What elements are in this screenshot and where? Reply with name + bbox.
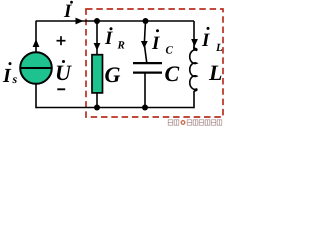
svg-text:I: I: [104, 28, 113, 49]
svg-text:I: I: [151, 33, 160, 54]
node top-C: [143, 18, 149, 24]
wire bottom: [36, 107, 194, 109]
current source Is bar: [20, 67, 52, 69]
wire G branch upper: [96, 21, 98, 54]
wire top: [36, 20, 194, 22]
conductance G: [92, 55, 103, 93]
svg-text:I: I: [201, 30, 210, 51]
svg-text:C: C: [166, 45, 174, 57]
node bottom-C: [142, 105, 148, 111]
arrow IR (down): [94, 43, 101, 51]
svg-text:I: I: [63, 1, 72, 22]
wire G branch lower: [96, 93, 98, 108]
inductor L coil: [190, 47, 197, 91]
arrow Is source current (up): [33, 39, 40, 47]
arrow IL (down): [191, 39, 198, 47]
svg-text:U: U: [55, 60, 72, 85]
current source Is circle: [20, 52, 52, 84]
watermark: [168, 120, 222, 125]
wire left upper: [35, 21, 37, 53]
watermark icon: [181, 120, 186, 125]
wire left lower: [35, 83, 37, 108]
wire L branch lower: [193, 91, 195, 109]
svg-text:I: I: [2, 65, 12, 87]
arrow I (right, on top wire): [76, 18, 84, 25]
wire C branch upper: [144, 21, 147, 63]
wire L branch upper: [193, 21, 195, 50]
dashed parallel-RLC box: [86, 9, 223, 117]
wire C branch lower: [144, 73, 146, 107]
svg-text:R: R: [117, 40, 125, 52]
svg-text:G: G: [105, 62, 121, 87]
label minus: [57, 88, 65, 90]
svg-text:L: L: [215, 42, 223, 54]
svg-text:C: C: [165, 61, 180, 86]
arrow IC (down): [141, 41, 148, 48]
node bottom-G: [94, 105, 100, 111]
node top-G: [94, 18, 100, 24]
label +: [57, 40, 66, 42]
svg-text:L: L: [208, 60, 222, 85]
svg-text:s: s: [12, 72, 18, 86]
capacitor C plates: [133, 62, 162, 64]
